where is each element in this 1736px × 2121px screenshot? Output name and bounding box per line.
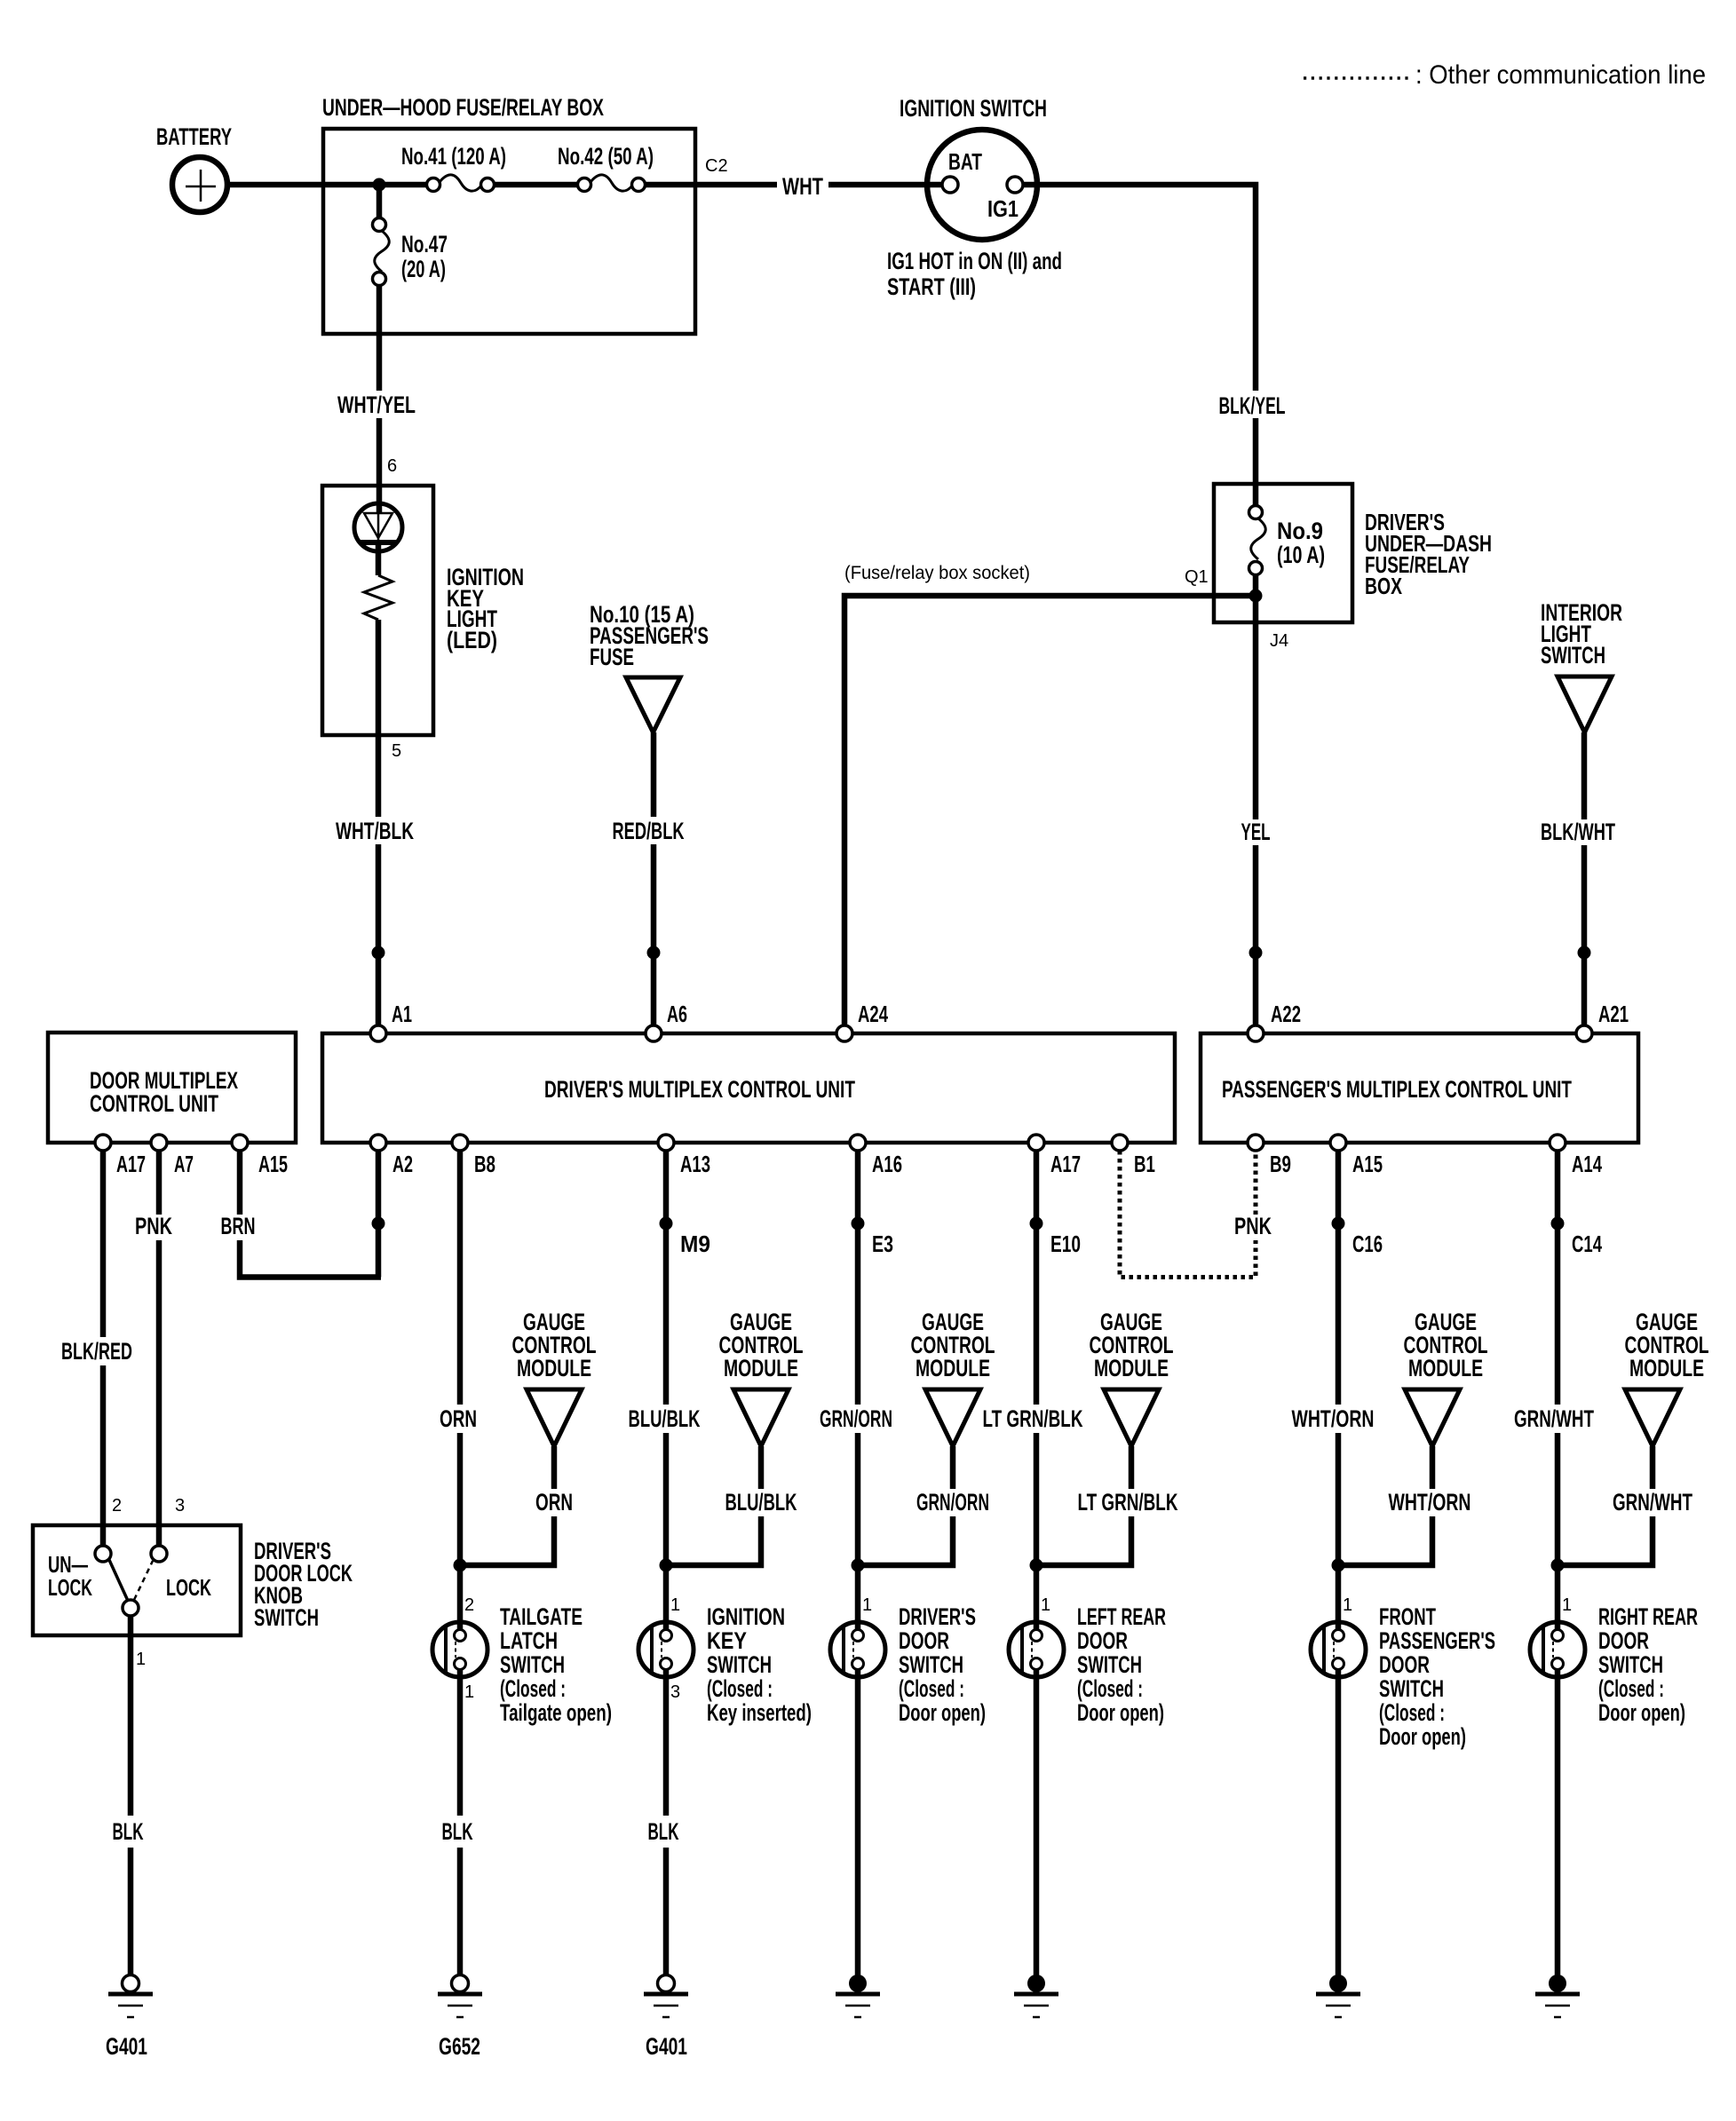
wire fuse/relay box socket xyxy=(844,596,1256,1025)
svg-text:MODULE: MODULE xyxy=(1408,1355,1483,1381)
terminal A15 door xyxy=(232,1135,248,1151)
terminal common knob xyxy=(123,1600,139,1616)
ground right rear door switch xyxy=(1549,1975,1566,1992)
svg-text:No.9: No.9 xyxy=(1277,518,1323,544)
svg-text:MODULE: MODULE xyxy=(724,1355,798,1381)
svg-text:DRIVER'S: DRIVER'S xyxy=(899,1603,976,1630)
wire driver's door switch to ground xyxy=(855,1670,861,1976)
wire J4 down to YEL xyxy=(1253,596,1259,819)
left rear door switch xyxy=(1009,1622,1064,1677)
svg-text:WHT: WHT xyxy=(782,173,823,200)
wire resistor to pin 5 xyxy=(376,620,382,817)
wire BLU/BLK to ignition key switch xyxy=(663,1433,670,1630)
svg-text:No.41 (120 A): No.41 (120 A) xyxy=(401,143,506,170)
passenger's multiplex control unit xyxy=(1201,1033,1638,1143)
switch arm solid UN-LOCK xyxy=(109,1560,128,1601)
svg-text:SWITCH: SWITCH xyxy=(707,1651,772,1678)
svg-text:(Closed :: (Closed : xyxy=(500,1675,566,1702)
wire WHT/BLK to A1 xyxy=(376,844,382,1025)
svg-text:MODULE: MODULE xyxy=(1629,1355,1704,1381)
node splice on BLK/WHT wire xyxy=(1578,946,1591,960)
svg-text:LATCH: LATCH xyxy=(500,1627,558,1654)
wire ORN to tailgate latch switch xyxy=(457,1433,464,1630)
svg-text:RIGHT REAR: RIGHT REAR xyxy=(1598,1603,1698,1630)
terminal A14 xyxy=(1550,1135,1566,1151)
svg-text:MODULE: MODULE xyxy=(517,1355,591,1381)
svg-text:GRN/ORN: GRN/ORN xyxy=(916,1489,989,1516)
driver's door lock knob switch xyxy=(33,1525,241,1635)
resistor in ignition key light xyxy=(364,575,392,620)
svg-text:1: 1 xyxy=(1041,1595,1050,1615)
svg-text:LT GRN/BLK: LT GRN/BLK xyxy=(1078,1489,1178,1516)
wire WHT/ORN to front passenger's door switch xyxy=(1336,1433,1342,1630)
svg-text:1: 1 xyxy=(862,1595,872,1615)
wire branch to gauge module 5 xyxy=(1338,1516,1432,1565)
svg-text:G401: G401 xyxy=(646,2033,687,2060)
svg-text:PASSENGER'S MULTIPLEX CONTROL: PASSENGER'S MULTIPLEX CONTROL UNIT xyxy=(1222,1076,1572,1103)
LED ignition key light xyxy=(354,503,402,551)
svg-text:IGNITION SWITCH: IGNITION SWITCH xyxy=(900,95,1047,122)
node splice C14 xyxy=(1551,1217,1565,1231)
terminal A13 xyxy=(658,1135,674,1151)
wire tailgate switch to BLK xyxy=(457,1670,464,1816)
wire fuse41 to fuse42 xyxy=(495,182,578,188)
wire A15 passenger down xyxy=(1336,1151,1342,1405)
svg-text:B8: B8 xyxy=(474,1151,495,1177)
svg-text:E10: E10 xyxy=(1050,1231,1081,1257)
wire interior light to BLK/WHT xyxy=(1581,732,1588,819)
terminal IG1 xyxy=(1007,177,1023,193)
terminal 2 knob xyxy=(95,1546,111,1562)
wire WHT to ignition switch xyxy=(828,182,942,188)
wire front passenger's door switch to ground xyxy=(1336,1670,1342,1976)
svg-text:DRIVER'S MULTIPLEX CONTROL UNI: DRIVER'S MULTIPLEX CONTROL UNIT xyxy=(544,1076,855,1103)
svg-text:Door open): Door open) xyxy=(1379,1723,1466,1750)
ignition key light box xyxy=(322,486,433,735)
svg-text:C16: C16 xyxy=(1352,1231,1383,1257)
wire WHT/YEL to ignition key light xyxy=(377,418,383,513)
svg-text:(Closed :: (Closed : xyxy=(1598,1675,1664,1702)
svg-text:ORN: ORN xyxy=(535,1489,573,1516)
svg-text:(10 A): (10 A) xyxy=(1277,542,1325,568)
driver's multiplex control unit xyxy=(322,1033,1175,1143)
wire left rear door switch to ground xyxy=(1034,1670,1040,1976)
svg-text:No.47: No.47 xyxy=(401,231,448,257)
node junction B8 branch xyxy=(454,1559,467,1572)
node splice on WHT/BLK wire xyxy=(372,946,385,960)
svg-text:DOOR: DOOR xyxy=(1598,1627,1649,1654)
svg-text:MODULE: MODULE xyxy=(1094,1355,1169,1381)
svg-text:BRN: BRN xyxy=(221,1213,256,1239)
dotted wire PNK to B9 xyxy=(1254,1151,1258,1215)
svg-text:LEFT REAR: LEFT REAR xyxy=(1077,1603,1166,1630)
svg-text:DOOR: DOOR xyxy=(899,1627,949,1654)
driver's under-dash fuse/relay box xyxy=(1214,484,1352,622)
svg-text:Door open): Door open) xyxy=(1077,1699,1164,1726)
wire BLK to ground xyxy=(457,1848,464,1975)
wire A17 driver's MCU down xyxy=(1034,1151,1040,1405)
wire PNK to knob switch pin 3 xyxy=(156,1240,163,1546)
svg-text:IGNITION: IGNITION xyxy=(707,1603,785,1630)
svg-text:(LED): (LED) xyxy=(447,627,497,653)
svg-text:(Fuse/relay box socket): (Fuse/relay box socket) xyxy=(844,563,1030,583)
terminal A15 xyxy=(1330,1135,1346,1151)
svg-text:6: 6 xyxy=(387,456,397,476)
svg-text:Tailgate open): Tailgate open) xyxy=(500,1699,612,1726)
svg-text:PASSENGER'S: PASSENGER'S xyxy=(1379,1627,1495,1654)
wire LT GRN/BLK to left rear door switch xyxy=(1034,1433,1040,1630)
svg-text:A17: A17 xyxy=(116,1151,146,1177)
svg-text:G652: G652 xyxy=(439,2033,480,2060)
wire GRN/WHT to right rear door switch xyxy=(1555,1433,1561,1630)
svg-text:WHT/BLK: WHT/BLK xyxy=(336,818,414,844)
svg-text:RED/BLK: RED/BLK xyxy=(613,818,685,844)
svg-text:5: 5 xyxy=(392,741,401,761)
svg-text:(Closed :: (Closed : xyxy=(899,1675,964,1702)
svg-text:IG1 HOT in ON (II) and: IG1 HOT in ON (II) and xyxy=(887,248,1062,274)
wire B8 down xyxy=(457,1151,464,1405)
terminal B1 xyxy=(1112,1135,1128,1151)
node splice on YEL wire xyxy=(1249,946,1263,960)
node splice on RED/BLK wire xyxy=(647,946,661,960)
svg-text:A2: A2 xyxy=(392,1151,413,1177)
ground G652 xyxy=(452,1975,469,1992)
wire A7 to PNK xyxy=(156,1151,163,1215)
driver's door switch xyxy=(830,1622,885,1677)
svg-text:GRN/WHT: GRN/WHT xyxy=(1514,1405,1594,1432)
ground front passenger's door switch xyxy=(1329,1975,1347,1992)
svg-text:G401: G401 xyxy=(106,2033,147,2060)
legend dotted line xyxy=(1304,76,1408,80)
svg-text:SWITCH: SWITCH xyxy=(1541,642,1605,669)
svg-text:A1: A1 xyxy=(392,1001,412,1027)
wire passenger fuse to RED/BLK xyxy=(651,732,657,817)
svg-text:1: 1 xyxy=(1343,1595,1352,1615)
wire A15 door to BRN xyxy=(237,1151,243,1215)
svg-text:LOCK: LOCK xyxy=(166,1574,211,1601)
wire YEL to A22 xyxy=(1253,845,1259,1025)
wire fuse42 to WHT label xyxy=(645,182,777,188)
svg-text:ORN: ORN xyxy=(440,1405,477,1432)
svg-text:M9: M9 xyxy=(680,1231,710,1257)
node junction A13 branch xyxy=(660,1559,673,1572)
wire A17 door to BLK/RED xyxy=(100,1151,107,1337)
svg-text:UNDER—HOOD FUSE/RELAY BOX: UNDER—HOOD FUSE/RELAY BOX xyxy=(322,94,604,121)
wire GRN/ORN to driver's door switch xyxy=(855,1433,861,1630)
svg-text:BLK: BLK xyxy=(442,1818,473,1845)
terminal A6 xyxy=(646,1025,662,1041)
terminal 3 knob xyxy=(151,1546,167,1562)
switch arm dashed LOCK xyxy=(134,1561,153,1600)
svg-text:Key inserted): Key inserted) xyxy=(707,1699,812,1726)
node splice E10 xyxy=(1030,1217,1043,1231)
ground driver's door switch xyxy=(849,1975,867,1992)
wire BRN elbow joining A2 xyxy=(240,1240,381,1278)
dotted wire B1 to B9 xyxy=(1120,1151,1256,1278)
wire right rear door switch to ground xyxy=(1555,1670,1561,1976)
svg-text:: Other communication line: : Other communication line xyxy=(1415,60,1706,90)
wire branch to gauge module 6 xyxy=(1558,1516,1653,1565)
wire A16 down xyxy=(855,1151,861,1405)
node splice M9 xyxy=(660,1217,673,1231)
node Q1 junction xyxy=(1249,590,1263,603)
svg-text:2: 2 xyxy=(464,1595,474,1615)
svg-text:C14: C14 xyxy=(1572,1231,1602,1257)
svg-text:C2: C2 xyxy=(705,156,728,176)
terminal A17 door xyxy=(95,1135,111,1151)
node splice on A2 wire xyxy=(372,1217,385,1231)
terminal A2 xyxy=(370,1135,386,1151)
wire fuse9 to junction xyxy=(1253,574,1259,596)
svg-text:A14: A14 xyxy=(1572,1151,1602,1177)
wire A13 down xyxy=(663,1151,670,1405)
svg-text:YEL: YEL xyxy=(1241,819,1271,845)
svg-text:A13: A13 xyxy=(680,1151,710,1177)
svg-text:LT GRN/BLK: LT GRN/BLK xyxy=(983,1405,1083,1432)
svg-text:3: 3 xyxy=(670,1682,680,1702)
wire knob common to BLK xyxy=(128,1616,134,1816)
terminal A24 xyxy=(836,1025,852,1041)
svg-text:SWITCH: SWITCH xyxy=(500,1651,565,1678)
svg-text:(Closed :: (Closed : xyxy=(1077,1675,1143,1702)
svg-text:B1: B1 xyxy=(1134,1151,1155,1177)
terminal A1 xyxy=(370,1025,386,1041)
ground G401 ignition key switch xyxy=(658,1975,675,1992)
svg-text:Q1: Q1 xyxy=(1185,567,1209,587)
svg-text:(Closed :: (Closed : xyxy=(707,1675,773,1702)
svg-text:SWITCH: SWITCH xyxy=(254,1604,319,1631)
node junction A15 branch xyxy=(1332,1559,1345,1572)
svg-text:LOCK: LOCK xyxy=(48,1574,92,1601)
svg-text:A15: A15 xyxy=(1352,1151,1383,1177)
wire branch to gauge module 3 xyxy=(858,1516,953,1565)
terminal A17 xyxy=(1028,1135,1044,1151)
svg-text:TAILGATE: TAILGATE xyxy=(500,1603,583,1630)
svg-text:SWITCH: SWITCH xyxy=(1379,1675,1444,1702)
wire BLK/WHT to A21 xyxy=(1581,845,1588,1025)
svg-text:BLK/WHT: BLK/WHT xyxy=(1541,819,1615,845)
svg-text:1: 1 xyxy=(1562,1595,1572,1615)
wire A2 down xyxy=(376,1151,382,1278)
node junction A17 branch xyxy=(1030,1559,1043,1572)
svg-text:BLU/BLK: BLU/BLK xyxy=(725,1489,797,1516)
wire BLK/YEL to fuse box xyxy=(1253,418,1259,506)
svg-text:BOX: BOX xyxy=(1365,573,1402,599)
wire BLK to ground xyxy=(128,1848,134,1975)
svg-text:A22: A22 xyxy=(1271,1001,1301,1027)
svg-text:1: 1 xyxy=(136,1650,146,1669)
svg-text:PNK: PNK xyxy=(1234,1213,1272,1239)
svg-text:A21: A21 xyxy=(1598,1001,1629,1027)
svg-text:MODULE: MODULE xyxy=(916,1355,990,1381)
svg-text:BLK/YEL: BLK/YEL xyxy=(1219,392,1286,419)
wire BLK to ground xyxy=(663,1848,670,1975)
wire BLK/RED to knob switch pin 2 xyxy=(100,1365,107,1546)
right rear door switch xyxy=(1530,1622,1585,1677)
svg-text:A24: A24 xyxy=(858,1001,888,1027)
svg-text:A16: A16 xyxy=(872,1151,902,1177)
svg-text:No.42 (50 A): No.42 (50 A) xyxy=(558,143,654,170)
svg-text:BATTERY: BATTERY xyxy=(156,123,232,150)
wire fuse47 down to WHT/YEL xyxy=(377,285,383,391)
node splice E3 xyxy=(852,1217,865,1231)
wire battery to fuse 41 xyxy=(227,182,427,188)
wire branch to gauge module 2 xyxy=(666,1516,761,1565)
wire branch to gauge module 1 xyxy=(460,1516,554,1565)
ignition key switch xyxy=(638,1622,694,1677)
node junction A14 branch xyxy=(1551,1559,1565,1572)
svg-text:BLK: BLK xyxy=(113,1818,144,1845)
svg-text:DOOR: DOOR xyxy=(1077,1627,1128,1654)
svg-text:BLU/BLK: BLU/BLK xyxy=(629,1405,701,1432)
svg-text:DOOR: DOOR xyxy=(1379,1651,1430,1678)
svg-text:WHT/ORN: WHT/ORN xyxy=(1292,1405,1375,1432)
terminal A7 door xyxy=(151,1135,167,1151)
terminal B8 xyxy=(452,1135,468,1151)
node splice C16 xyxy=(1332,1217,1345,1231)
svg-text:BLK: BLK xyxy=(648,1818,679,1845)
ground left rear door switch xyxy=(1027,1975,1045,1992)
wire branch to gauge module 4 xyxy=(1036,1516,1131,1565)
svg-text:IG1: IG1 xyxy=(987,195,1019,222)
wire LED to resistor xyxy=(376,545,382,575)
terminal A16 xyxy=(850,1135,866,1151)
wire IG1 to BLK/YEL xyxy=(1023,185,1256,391)
svg-text:A15: A15 xyxy=(258,1151,288,1177)
node battery feed junction xyxy=(373,178,386,192)
svg-text:(Closed :: (Closed : xyxy=(1379,1699,1445,1726)
svg-text:J4: J4 xyxy=(1270,631,1288,651)
ground G401 xyxy=(123,1975,139,1992)
svg-text:1: 1 xyxy=(670,1595,680,1615)
svg-text:START (III): START (III) xyxy=(887,273,976,300)
terminal A22 xyxy=(1248,1025,1264,1041)
svg-text:PNK: PNK xyxy=(135,1213,172,1239)
svg-text:(20 A): (20 A) xyxy=(401,256,446,282)
svg-text:SWITCH: SWITCH xyxy=(1077,1651,1142,1678)
svg-text:WHT/ORN: WHT/ORN xyxy=(1389,1489,1471,1516)
svg-text:A7: A7 xyxy=(174,1151,194,1177)
svg-text:1: 1 xyxy=(464,1682,474,1702)
svg-text:GRN/WHT: GRN/WHT xyxy=(1613,1489,1692,1516)
svg-text:B9: B9 xyxy=(1270,1151,1291,1177)
svg-text:3: 3 xyxy=(175,1496,185,1516)
svg-text:A6: A6 xyxy=(667,1001,687,1027)
svg-text:GRN/ORN: GRN/ORN xyxy=(820,1405,892,1432)
svg-text:A17: A17 xyxy=(1050,1151,1081,1177)
node junction A16 branch xyxy=(852,1559,865,1572)
svg-text:Door open): Door open) xyxy=(899,1699,986,1726)
svg-text:E3: E3 xyxy=(872,1231,893,1257)
svg-text:CONTROL UNIT: CONTROL UNIT xyxy=(90,1090,218,1117)
svg-text:KEY: KEY xyxy=(707,1627,747,1654)
fuse No.47 (20 A) xyxy=(377,185,383,218)
tailgate latch switch xyxy=(432,1622,488,1677)
terminal B9 xyxy=(1248,1135,1264,1151)
wire RED/BLK to A6 xyxy=(651,844,657,1025)
svg-text:BAT: BAT xyxy=(948,148,982,175)
wire ignition key switch to BLK xyxy=(663,1670,670,1816)
svg-text:SWITCH: SWITCH xyxy=(1598,1651,1663,1678)
svg-text:FRONT: FRONT xyxy=(1379,1603,1436,1630)
svg-text:FUSE: FUSE xyxy=(590,644,634,670)
terminal BAT xyxy=(942,177,958,193)
svg-text:BLK/RED: BLK/RED xyxy=(61,1338,132,1365)
front passenger's door switch xyxy=(1311,1622,1366,1677)
door multiplex control unit xyxy=(48,1033,296,1143)
svg-text:Door open): Door open) xyxy=(1598,1699,1685,1726)
svg-text:2: 2 xyxy=(112,1496,122,1516)
terminal A21 xyxy=(1576,1025,1592,1041)
svg-text:SWITCH: SWITCH xyxy=(899,1651,963,1678)
svg-text:WHT/YEL: WHT/YEL xyxy=(337,392,416,418)
wire A14 down xyxy=(1555,1151,1561,1405)
